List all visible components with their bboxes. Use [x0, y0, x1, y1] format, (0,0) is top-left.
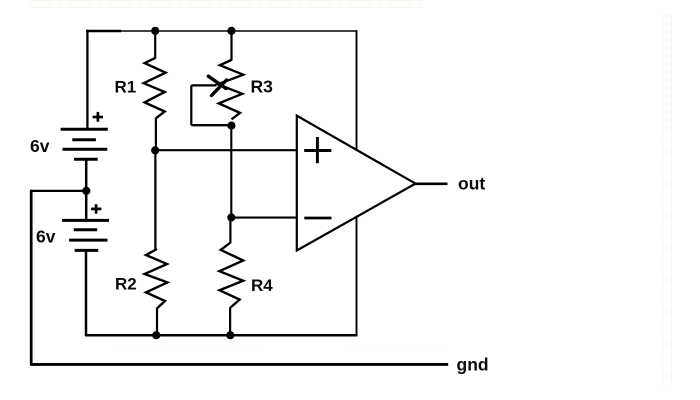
resistor R2 — [145, 249, 168, 308]
junction: battery midpoint node — [82, 187, 90, 195]
wire: R2 top lead — [154, 150, 156, 250]
wire: R1 bottom lead — [155, 118, 157, 151]
svg-text:gnd: gnd — [457, 355, 489, 375]
wire: wiper stub — [191, 84, 216, 86]
svg-text:R2: R2 — [115, 275, 137, 294]
wire: output lead — [415, 182, 448, 185]
battery B1 6v — [61, 129, 108, 159]
junction: bottom rail at R2 — [152, 331, 160, 339]
wire: wiper loop left side — [190, 85, 192, 125]
svg-text:R3: R3 — [251, 77, 274, 97]
op-amp U1 — [297, 116, 416, 251]
op-amp non-inverting input marking + — [304, 137, 331, 163]
wire: B1 negative to B2 positive — [85, 159, 88, 221]
op-amp inverting input marking − — [304, 217, 331, 220]
wire: ground rail — [30, 363, 448, 366]
junction: top rail at R3 — [227, 27, 235, 35]
svg-text:R1: R1 — [115, 78, 137, 97]
junction: inverting input node — [227, 213, 235, 221]
wire: op-amp positive supply drop — [356, 30, 358, 150]
wire: R4 bottom lead — [229, 308, 231, 337]
wire: R1 top lead — [154, 30, 156, 59]
junction: top rail at R1 — [151, 27, 159, 35]
wire: bottom supply rail — [85, 334, 358, 337]
wire: wiper loop bottom — [191, 124, 229, 126]
wire: R3 node to inverting node — [230, 125, 232, 218]
label: B1 polarity + — [93, 112, 103, 122]
wire: left ground drop — [30, 190, 33, 365]
resistor R3 variable — [218, 60, 244, 119]
resistor R4 — [220, 243, 244, 308]
svg-text:6v: 6v — [30, 136, 50, 156]
battery B2 6v — [62, 220, 109, 250]
wire: top supply rail — [86, 30, 357, 33]
wire: R2 bottom lead — [156, 308, 158, 337]
wiper arrow of R3 — [208, 76, 226, 95]
junction: R3 bottom node — [227, 122, 235, 130]
svg-text:R4: R4 — [251, 276, 273, 295]
wire: node to op-amp inverting input — [231, 217, 297, 219]
wire: B2 negative lead — [85, 251, 88, 337]
wire: battery midpoint to left ground branch — [31, 190, 87, 192]
wire: battery B1 positive lead — [86, 30, 88, 129]
junction: non-inverting input node — [151, 146, 159, 154]
wire: op-amp negative supply riser — [356, 217, 358, 336]
label: B2 polarity + — [91, 204, 101, 214]
svg-text:6v: 6v — [36, 227, 56, 247]
wire: node to op-amp non-inverting input — [155, 149, 297, 151]
wire: R3 top lead — [230, 30, 232, 61]
wire: R4 top lead — [229, 218, 231, 244]
svg-text:out: out — [458, 174, 485, 194]
resistor R1 — [144, 58, 166, 118]
junction: bottom rail at R4 — [226, 331, 234, 339]
